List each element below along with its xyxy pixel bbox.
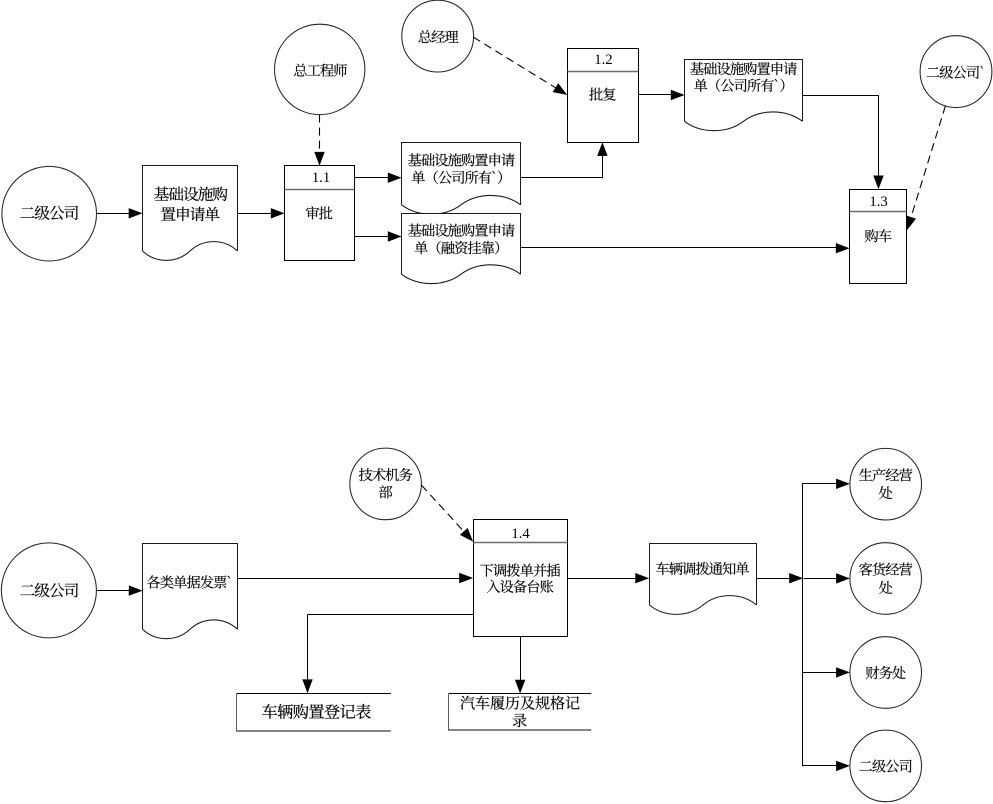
document D1 基础设施购置申请单 — [143, 166, 238, 261]
external entity 财务处 — [850, 637, 922, 709]
process P3 1.3 购车 — [850, 190, 907, 284]
external entity E2 二级公司 (bottom-left) — [1, 543, 96, 638]
dashed flow: 总经理 → process 1.2 — [473, 37, 567, 95]
process P4 1.4 下调拨单并插入设备台账 — [474, 520, 568, 637]
dashed flow: 总工程师 → process 1.1 — [314, 115, 324, 166]
external entity 总工程师 — [275, 24, 365, 114]
flow branch → 客货经营处 — [804, 573, 850, 583]
flow: process 1.4 → 车辆调拨通知单 — [567, 573, 649, 583]
external entity E1 二级公司 (top-left) — [2, 166, 97, 261]
dashed flow: 技术机务部 → process 1.4 — [421, 485, 473, 541]
junction/branch line (vertical) — [802, 483, 804, 766]
flow: 各类单据发票 → process 1.4 — [237, 573, 473, 583]
flow: D3 → process 1.3 (L-shaped down) — [803, 96, 884, 190]
data store S1 车辆购置登记表 — [237, 694, 391, 732]
external entity 二级公司 (bottom-right) — [850, 730, 922, 802]
document D2b 基础设施购置申请单（融资挂靠） — [402, 214, 521, 284]
flow: process 1.4 → 汽车履历及规格记录 (down) — [515, 636, 525, 693]
flow: 车辆调拨通知单 → junction — [756, 573, 803, 583]
svg-text:1.3: 1.3 — [869, 194, 887, 210]
flow branch → 财务处 — [803, 667, 850, 677]
flow: process 1.1 → 申请单(融资挂靠) — [355, 231, 402, 241]
flow branch → 二级公司 (bottom-right) — [803, 761, 850, 771]
process P1 1.1 审批 — [285, 166, 355, 261]
document D5 车辆调拨通知单 — [650, 544, 757, 615]
flow: 申请单(融资挂靠) → process 1.3 (long) — [520, 243, 849, 253]
flow branch → 生产经营处 — [803, 479, 850, 489]
external entity 生产经营处 — [850, 448, 922, 520]
document D4 各类单据发票` — [143, 544, 238, 639]
dashed flow: 二级公司` → process 1.3 — [906, 106, 945, 230]
flow: 基础设施购置申请单 → process 1.1 — [237, 208, 284, 218]
data store S2 汽车履历及规格记录 — [449, 694, 592, 731]
flow: 二级公司 → 基础设施购置申请单 — [97, 208, 143, 218]
flow: process 1.2 → 申请单(公司所有) right — [638, 90, 684, 100]
document D2a 基础设施购置申请单（公司所有`） — [402, 143, 521, 215]
external entity 技术机务部 — [350, 448, 422, 520]
svg-text:1.4: 1.4 — [511, 526, 530, 542]
svg-text:1.1: 1.1 — [312, 170, 330, 186]
flow: process 1.1 → 申请单(公司所有) — [355, 173, 402, 183]
flow: 申请单(公司所有) → process 1.2 (L-shaped) — [520, 142, 607, 178]
document D3 基础设施购置申请单（公司所有`） right — [685, 60, 803, 131]
flow: process 1.4 → 车辆购置登记表 (L-shaped) — [302, 615, 473, 694]
external entity 客货经营处 — [850, 543, 922, 615]
svg-text:1.2: 1.2 — [594, 52, 612, 68]
process P2 1.2 批复 — [568, 49, 639, 143]
external entity 二级公司` (top-right) — [920, 36, 992, 108]
flow: 二级公司 → 各类单据发票 — [96, 585, 142, 595]
external entity 总经理 — [402, 0, 474, 72]
